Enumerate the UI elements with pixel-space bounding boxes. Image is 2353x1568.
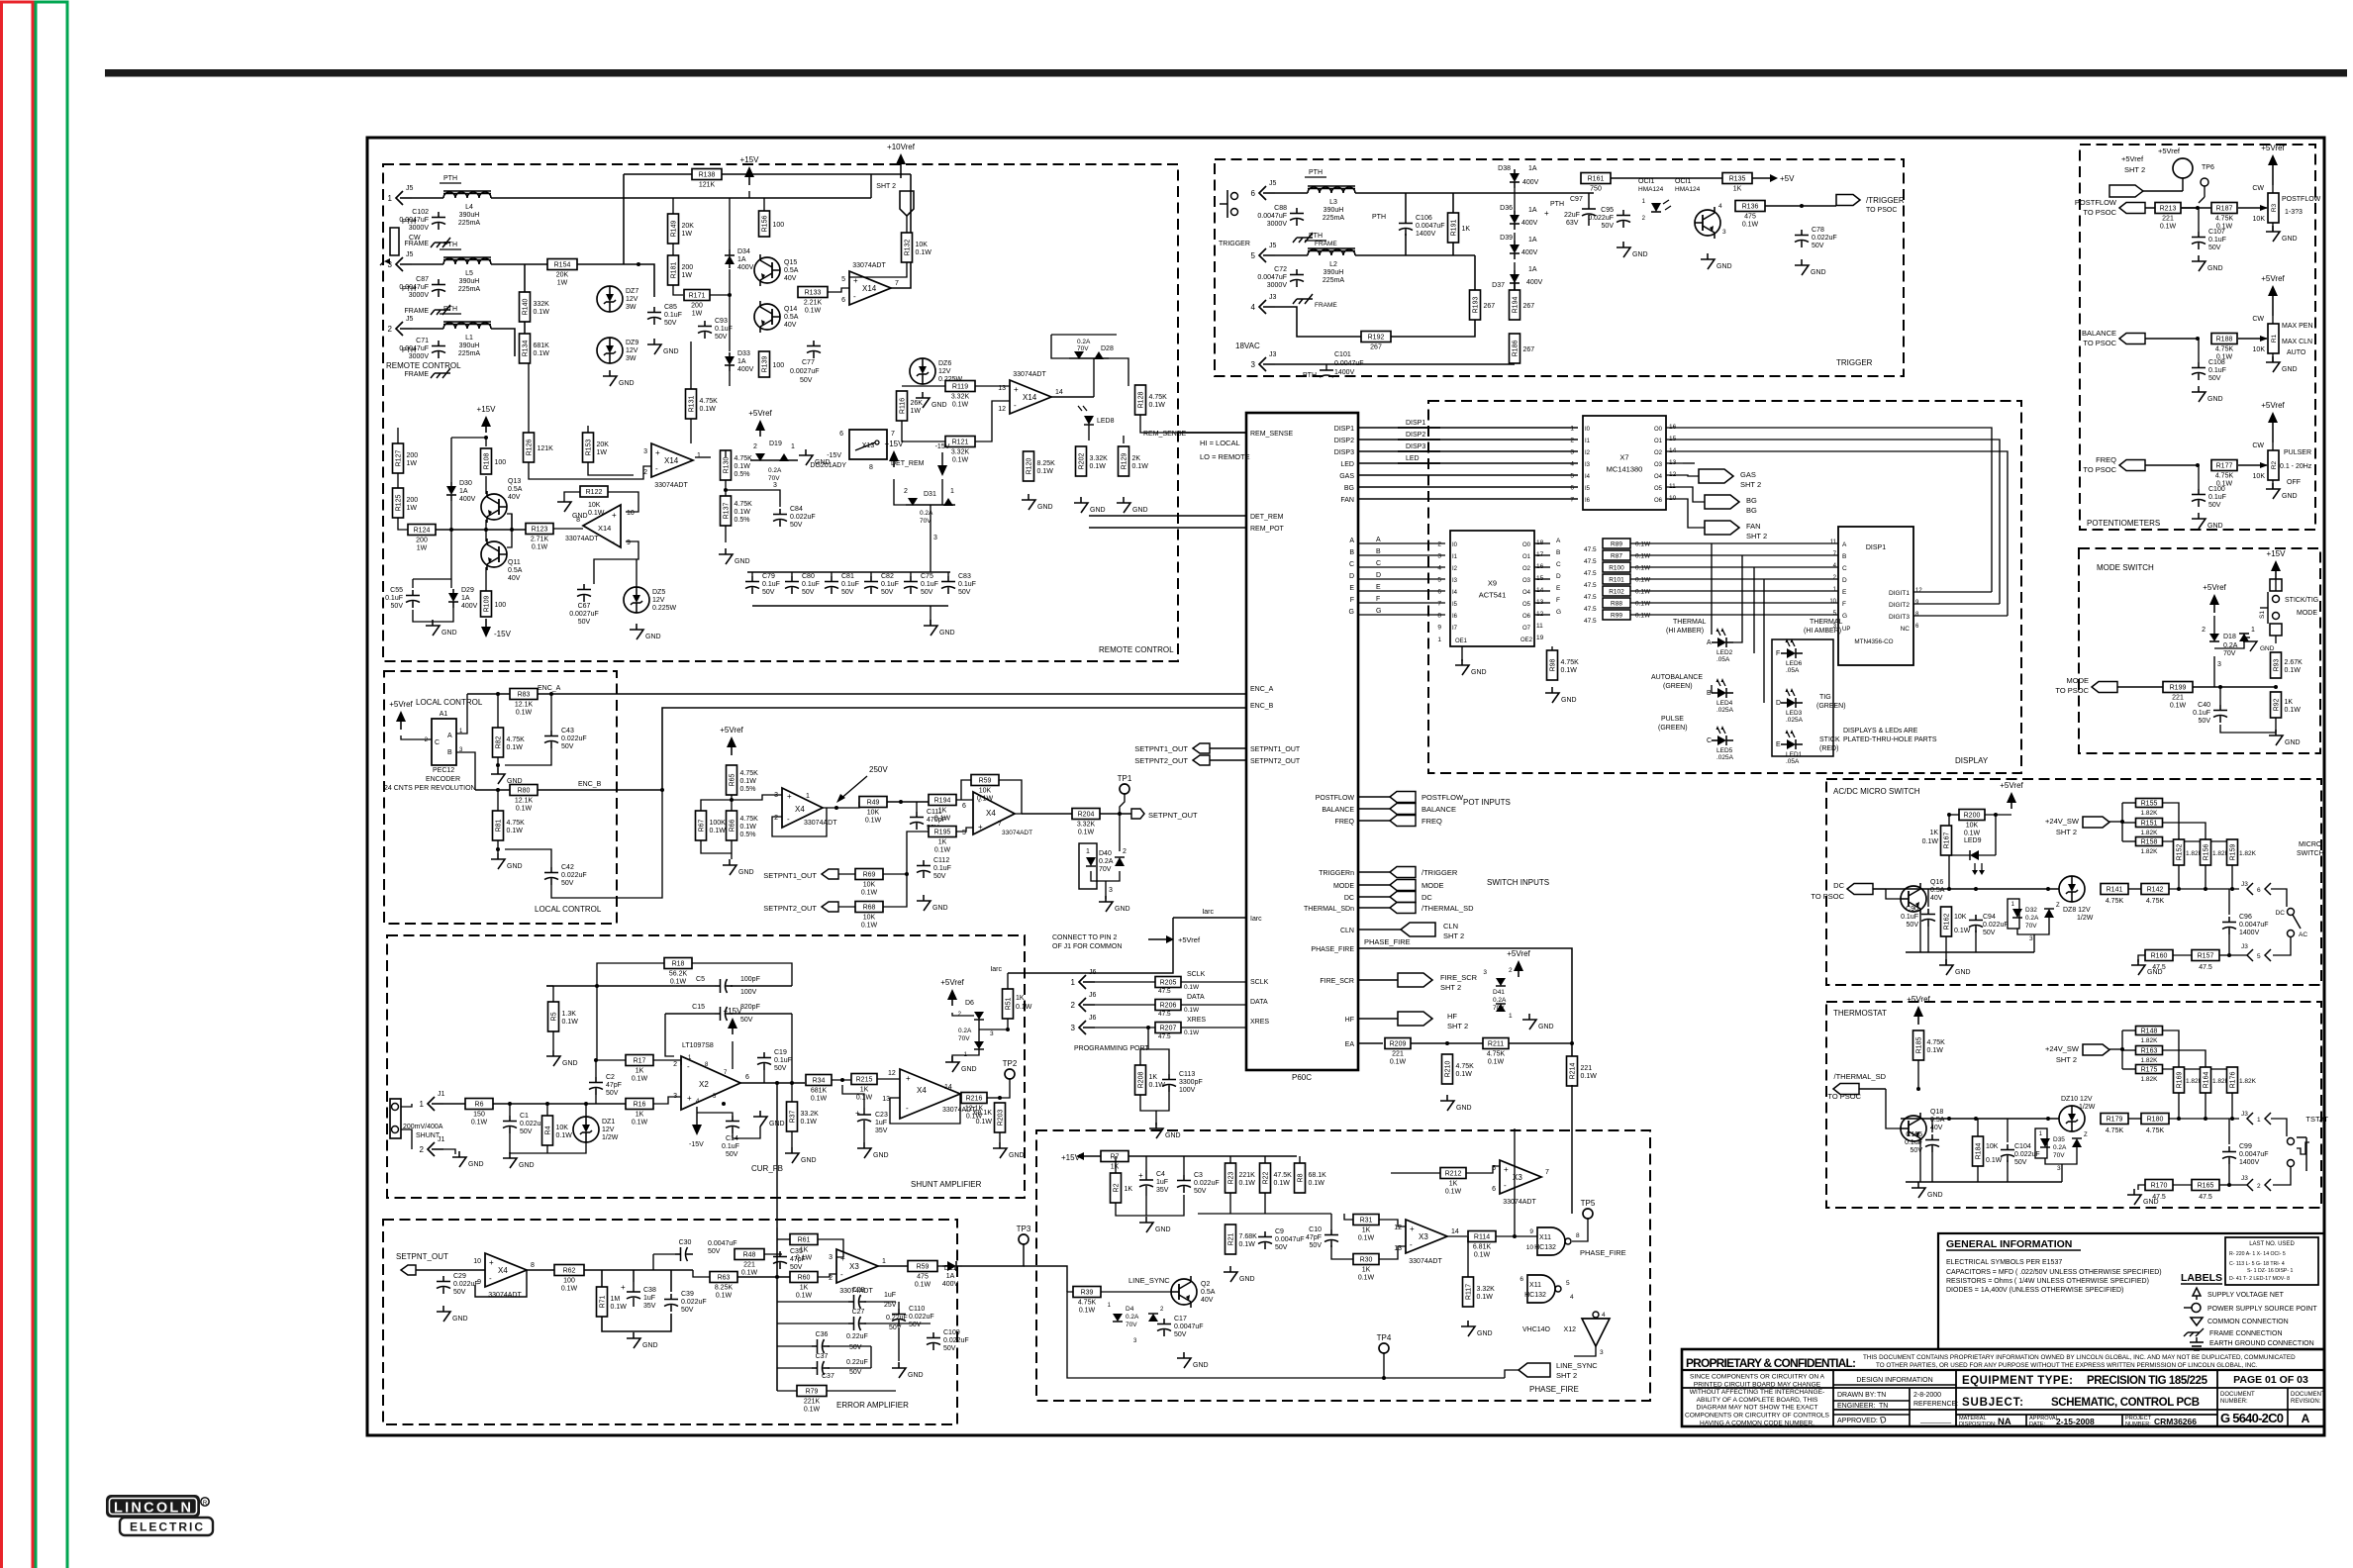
svg-text:0.1W: 0.1W (716, 1293, 733, 1300)
svg-text:R83: R83 (518, 692, 531, 699)
capacitor C23 (855, 1108, 888, 1134)
resistor R17 (626, 1055, 653, 1083)
svg-text:1K: 1K (1929, 830, 1938, 836)
wire Q16 collector rail (1886, 888, 2059, 890)
svg-text:DC: DC (2276, 910, 2286, 917)
svg-text:R141: R141 (2107, 887, 2123, 894)
svg-text:+: + (978, 823, 983, 832)
net tag SETPNT2_OUT (1134, 755, 1210, 765)
svg-text:GND: GND (619, 380, 635, 387)
svg-text:R8: R8 (1298, 1173, 1305, 1182)
svg-text:J6: J6 (1089, 992, 1097, 999)
ground (2131, 959, 2163, 976)
LED LED3 (1776, 688, 1804, 724)
net tag POSTFLOW (2119, 203, 2145, 214)
svg-text:3: 3 (2217, 661, 2221, 668)
resistor R175 (2136, 1065, 2163, 1074)
svg-text:F: F (1776, 650, 1780, 657)
section box PHASE_FIRE (1036, 1130, 1650, 1401)
svg-text:40V: 40V (508, 575, 521, 582)
svg-text:1: 1 (2251, 627, 2255, 634)
svg-text:1/2W: 1/2W (2079, 1104, 2096, 1111)
svg-text:9: 9 (1529, 1228, 1533, 1235)
svg-text:L4: L4 (465, 204, 473, 211)
svg-text:FIRE_SCR: FIRE_SCR (1440, 973, 1478, 982)
svg-text:O6: O6 (1654, 498, 1663, 504)
wire (2138, 1185, 2145, 1190)
wire (1091, 871, 1120, 881)
net tag +24V_SW (2045, 1044, 2109, 1064)
wire (725, 480, 727, 496)
wire (732, 1041, 734, 1069)
svg-text:0.1W: 0.1W (1954, 928, 1971, 934)
wire (1210, 759, 1246, 761)
svg-text:267: 267 (1370, 344, 1382, 351)
resistor R51 (1003, 989, 1014, 1019)
svg-text:G: G (1376, 608, 1381, 615)
svg-text:1K: 1K (1125, 1186, 1133, 1193)
resistor R2x (1111, 1173, 1133, 1203)
svg-text:BG: BG (1746, 496, 1757, 505)
svg-text:R3: R3 (2271, 203, 2278, 212)
svg-text:POT INPUTS: POT INPUTS (1463, 798, 1511, 807)
svg-text:CRM36266: CRM36266 (2154, 1417, 2197, 1426)
svg-text:X14: X14 (598, 524, 611, 533)
wire bottom run (1067, 1292, 1505, 1378)
svg-text:A: A (1349, 538, 1354, 544)
svg-text:0.1W: 0.1W (1274, 1180, 1291, 1187)
wire DISP bus 7 (1358, 498, 1578, 500)
power +5Vref (1507, 949, 1530, 977)
svg-text:SHT 2: SHT 2 (876, 183, 896, 190)
section box DISPLAY (1428, 401, 2021, 773)
capacitor C29 (437, 1273, 479, 1296)
svg-text:70V: 70V (1126, 1322, 1137, 1328)
svg-text:TP6: TP6 (2202, 164, 2214, 171)
wire (777, 1367, 812, 1369)
svg-text:+5Vref: +5Vref (389, 700, 413, 709)
svg-text:C43: C43 (561, 728, 574, 735)
svg-text:THIS DOCUMENT CONTAINS PROPRIE: THIS DOCUMENT CONTAINS PROPRIETARY INFOR… (1863, 1354, 2296, 1361)
svg-text:+: + (612, 511, 617, 520)
capacitor C17 (1157, 1316, 1204, 1338)
resistor R21 (1226, 1225, 1258, 1254)
svg-text:R165: R165 (2198, 1183, 2214, 1190)
svg-text:F: F (1350, 597, 1354, 604)
svg-text:2: 2 (643, 469, 647, 476)
svg-text:R18: R18 (672, 961, 685, 968)
svg-text:GND: GND (1037, 504, 1053, 511)
resistor R6 (465, 1099, 493, 1127)
svg-text:2: 2 (1570, 438, 1574, 444)
svg-text:10K: 10K (1986, 1143, 1999, 1150)
svg-text:GND: GND (2207, 523, 2223, 530)
svg-text:4.75K: 4.75K (1078, 1300, 1097, 1307)
wire (450, 501, 452, 530)
test point TP1 (1118, 774, 1132, 794)
svg-text:0.1uF: 0.1uF (958, 581, 976, 588)
svg-text:0.5%: 0.5% (740, 832, 756, 838)
svg-text:R123: R123 (532, 527, 548, 534)
svg-text:R169: R169 (2177, 1072, 2184, 1089)
svg-text:VHC14O: VHC14O (1522, 1326, 1551, 1333)
svg-text:2: 2 (388, 325, 393, 334)
svg-text:GND: GND (2282, 493, 2298, 500)
svg-text:GND: GND (2282, 236, 2298, 243)
ground (426, 620, 457, 637)
wire (1733, 555, 1742, 642)
wire (1379, 1220, 1406, 1226)
trigger switch symbol (1219, 190, 1250, 247)
svg-text:-: - (1410, 1240, 1413, 1249)
svg-text:0.1W: 0.1W (861, 890, 878, 897)
svg-text:0.5A: 0.5A (1201, 1289, 1216, 1296)
wire (2007, 1160, 2009, 1182)
resistor R206 (1155, 1000, 1181, 1011)
svg-text:.05A: .05A (1786, 758, 1800, 765)
resistor R132 (902, 233, 932, 262)
svg-text:0.1W: 0.1W (471, 1120, 488, 1127)
svg-text:GND: GND (2207, 396, 2223, 403)
wire segment O2 (1683, 451, 2008, 616)
svg-text:GND: GND (1090, 507, 1106, 514)
wire (823, 802, 859, 808)
diode D34 (725, 248, 754, 271)
svg-text:1K: 1K (1362, 1227, 1371, 1234)
svg-text:0.1W: 0.1W (1964, 831, 1981, 837)
svg-text:R204: R204 (1078, 812, 1095, 819)
net tag SHT 2 (down pentagon) (876, 183, 914, 216)
resistor R135 (1722, 173, 1752, 193)
wire (2121, 803, 2123, 841)
capacitor bank wire (747, 571, 950, 573)
wire (1927, 889, 1929, 907)
svg-text:SETPNT2_OUT: SETPNT2_OUT (1134, 756, 1188, 765)
frame connection (405, 238, 451, 247)
connector J3 pin 6 (2241, 881, 2271, 895)
wire (2017, 918, 2049, 934)
svg-text:10K: 10K (979, 788, 992, 795)
svg-text:DISP3: DISP3 (1334, 449, 1354, 456)
wire (2275, 579, 2277, 591)
svg-text:PTH: PTH (402, 219, 416, 226)
wire (491, 197, 871, 199)
svg-text:6: 6 (1520, 1276, 1523, 1283)
svg-text:O5: O5 (1654, 486, 1663, 492)
svg-text:MAX CLN: MAX CLN (2282, 339, 2312, 345)
capacitor C35 (773, 1248, 806, 1271)
resistor R65 (727, 765, 759, 795)
svg-text:0.1W: 0.1W (561, 1286, 578, 1293)
svg-text:C: C (1349, 561, 1354, 568)
wire (1411, 1042, 1483, 1044)
svg-text:Q18: Q18 (1930, 1109, 1943, 1116)
svg-text:33074ADT: 33074ADT (488, 1292, 522, 1299)
wire (1572, 1219, 1588, 1241)
svg-text:70V: 70V (1077, 345, 1089, 352)
wire D (1358, 578, 1445, 580)
svg-text:400V: 400V (459, 496, 476, 503)
svg-text:4.75K: 4.75K (1149, 394, 1168, 401)
wire (902, 421, 945, 441)
svg-text:10K: 10K (1966, 823, 1979, 830)
wire (2122, 1068, 2135, 1070)
svg-text:EQUIPMENT TYPE:: EQUIPMENT TYPE: (1962, 1375, 2073, 1387)
capacitor C55 (385, 587, 420, 610)
svg-text:CLN: CLN (1340, 928, 1354, 934)
connector J3 pin 2 (2241, 1175, 2271, 1191)
svg-text:R134: R134 (523, 341, 530, 357)
op-amp X3 (1394, 1220, 1459, 1265)
resistor R213 (2155, 203, 2181, 231)
svg-text:C5: C5 (696, 976, 705, 983)
svg-text:-: - (906, 1104, 909, 1113)
svg-text:12.1K: 12.1K (515, 702, 534, 709)
resistor R207 (1155, 1023, 1181, 1033)
svg-text:C113: C113 (1179, 1071, 1195, 1078)
wire (594, 541, 638, 584)
svg-text:GND: GND (735, 558, 750, 565)
svg-text:221: 221 (1581, 1065, 1593, 1072)
svg-text:R61: R61 (798, 1237, 811, 1244)
svg-text:DIGIT1: DIGIT1 (1889, 590, 1910, 597)
svg-text:DATA: DATA (1250, 999, 1268, 1006)
capacitor C42 (544, 864, 587, 887)
svg-text:DZ5: DZ5 (652, 589, 665, 596)
wire (693, 1270, 710, 1277)
svg-text:FRAME: FRAME (1315, 302, 1337, 309)
svg-text:OE1: OE1 (1455, 638, 1468, 644)
svg-text:2K: 2K (1132, 455, 1141, 462)
wire (401, 1129, 412, 1149)
resistor R67 (696, 811, 727, 840)
wire (890, 1094, 960, 1124)
svg-text:Q15: Q15 (784, 259, 797, 266)
svg-text:4.75K: 4.75K (700, 398, 719, 405)
svg-text:0.022uF: 0.022uF (909, 1314, 934, 1321)
wire (1534, 554, 1550, 556)
wire (2173, 954, 2192, 956)
svg-text:0.1W: 0.1W (1132, 463, 1149, 470)
svg-text:LOCAL CONTROL: LOCAL CONTROL (416, 698, 483, 707)
wire (564, 492, 580, 502)
wire (1358, 1042, 1383, 1044)
svg-text:50V: 50V (943, 1345, 956, 1352)
resistor R191 (1448, 213, 1471, 243)
svg-text:GND: GND (939, 630, 955, 637)
svg-text:G: G (1556, 609, 1561, 616)
svg-text:6: 6 (962, 803, 966, 810)
svg-text:DIODES = 1A,400V (UNLESS: DIODES = 1A,400V (UNLESS OTHERWISE SPECI… (1946, 1287, 2123, 1294)
diode D28 (1069, 339, 1114, 359)
IC DISP1 display (1838, 527, 1913, 665)
wire (1753, 567, 1755, 653)
power +5Vref (2261, 401, 2285, 442)
power +5Vref (940, 978, 964, 1006)
resistor R120 (1024, 451, 1056, 481)
wire seg R99 (1630, 614, 1838, 616)
svg-text:SHT 2: SHT 2 (1556, 1371, 1577, 1380)
resistor R176 (2227, 1067, 2238, 1093)
wire (791, 572, 793, 576)
svg-text:221: 221 (2172, 695, 2184, 702)
svg-text:R180: R180 (2147, 1117, 2164, 1124)
ground (2127, 1189, 2159, 1206)
wire (987, 1097, 1000, 1099)
wire (1358, 1018, 1398, 1020)
svg-text:50V: 50V (909, 1322, 922, 1328)
svg-text:GND: GND (1239, 1276, 1255, 1283)
svg-text:0.1W: 0.1W (588, 510, 605, 517)
svg-text:D: D (1556, 573, 1561, 580)
wire (838, 873, 855, 875)
capacitor C96 (2222, 914, 2269, 936)
svg-text:1A: 1A (737, 256, 746, 263)
svg-text:C105: C105 (1906, 1131, 1922, 1138)
svg-text:20K: 20K (556, 272, 569, 279)
svg-text:820pF: 820pF (740, 1004, 760, 1011)
svg-text:TIG: TIG (1819, 694, 1831, 701)
svg-text:1uF: 1uF (884, 1292, 896, 1299)
wire DISP bus 3 (1358, 450, 1578, 452)
svg-text:47.5: 47.5 (1158, 1033, 1171, 1040)
svg-text:D- 41 T- 2 LED-17 MOV-: D- 41 T- 2 LED-17 MOV- 8 (2229, 1276, 2290, 1282)
svg-text:+: + (621, 1283, 626, 1292)
svg-text:2: 2 (2202, 627, 2206, 634)
svg-text:R89: R89 (1611, 541, 1622, 548)
svg-text:681K: 681K (811, 1088, 828, 1095)
svg-text:R114: R114 (1474, 1234, 1490, 1241)
op-amp X4 stage 1 (774, 788, 837, 828)
wire (2033, 934, 2035, 952)
svg-text:0.1W: 0.1W (632, 1076, 648, 1083)
wire (697, 1113, 733, 1116)
diode D40 pair (1079, 843, 1127, 894)
svg-text:1K: 1K (800, 1247, 809, 1254)
svg-text:SHUNT AMPLIFIER: SHUNT AMPLIFIER (911, 1180, 982, 1189)
wire (397, 473, 399, 488)
svg-text:0.1W: 0.1W (952, 402, 969, 409)
svg-text:0.5A: 0.5A (508, 567, 523, 574)
power +15V (724, 1007, 743, 1034)
frame connection (1293, 233, 1313, 243)
svg-text:R122: R122 (586, 489, 603, 496)
LED LED4 (1707, 678, 1734, 714)
switch DC/AC (2276, 909, 2308, 939)
wire Q18 collector rail (1901, 1118, 2059, 1120)
svg-text:CLN: CLN (1443, 922, 1458, 931)
svg-text:C80: C80 (802, 573, 815, 580)
svg-text:FAN: FAN (1340, 497, 1354, 504)
svg-text:0.022uF: 0.022uF (2014, 1151, 2040, 1158)
svg-text:PHASE_FIRE: PHASE_FIRE (1529, 1385, 1579, 1394)
svg-text:TO PSOC: TO PSOC (2083, 339, 2116, 347)
svg-text:X14: X14 (862, 284, 877, 293)
svg-text:I6: I6 (1452, 614, 1458, 620)
resistor R83 (510, 689, 538, 717)
svg-text:0.5A: 0.5A (784, 267, 799, 274)
svg-text:4.75K: 4.75K (2146, 898, 2165, 905)
svg-text:O5: O5 (1522, 602, 1531, 608)
wire (1148, 1049, 1169, 1074)
resistor R148 (2136, 1027, 2163, 1035)
wire segment O1 (1683, 440, 2000, 604)
svg-text:SHT 2: SHT 2 (1447, 1022, 1468, 1030)
svg-text:-15V: -15V (935, 443, 950, 450)
power +10Vref (887, 143, 916, 178)
wire (1886, 889, 1901, 899)
svg-text:1.82K: 1.82K (2141, 810, 2159, 817)
250V note (836, 765, 888, 803)
wire ENC_B (538, 789, 662, 791)
svg-text:HF: HF (1345, 1017, 1354, 1024)
diode D11 (942, 1261, 962, 1288)
svg-text:40V: 40V (508, 494, 521, 501)
svg-text:100V: 100V (740, 989, 757, 996)
svg-text:1: 1 (950, 488, 954, 495)
svg-text:400V: 400V (737, 264, 754, 271)
svg-text:J3: J3 (1269, 294, 1277, 301)
svg-text:C108: C108 (2208, 359, 2225, 366)
svg-text:1K: 1K (2285, 699, 2294, 706)
resistor R66 (727, 811, 759, 840)
wire (751, 572, 753, 576)
green margin bar (36, 2, 67, 1568)
potentiometer R1 (2252, 316, 2279, 353)
wire (2238, 338, 2267, 340)
svg-text:3: 3 (1109, 887, 1113, 894)
svg-text:LAST NO. USED: LAST NO. USED (2249, 1241, 2295, 1247)
svg-text:R151: R151 (2141, 821, 2158, 828)
wire (1275, 363, 1515, 365)
svg-text:50V: 50V (561, 880, 574, 887)
svg-text:CONNECT TO PIN 2: CONNECT TO PIN 2 (1052, 934, 1117, 941)
svg-text:LED3: LED3 (1786, 710, 1803, 717)
svg-text:R149: R149 (671, 221, 678, 238)
svg-text:MODE: MODE (2297, 610, 2317, 617)
wire (763, 198, 765, 211)
wire (1183, 1156, 1185, 1175)
svg-text:0.2A: 0.2A (920, 510, 933, 517)
svg-text:0.1W: 0.1W (1488, 1059, 1505, 1066)
svg-text:+10Vref: +10Vref (887, 143, 916, 151)
svg-text:C: C (435, 739, 440, 746)
capacitor C101 (1303, 351, 1364, 379)
wire (2231, 865, 2233, 889)
svg-text:E: E (1349, 585, 1354, 592)
svg-text:X14: X14 (664, 456, 679, 465)
wire (777, 1238, 790, 1240)
power +15V (477, 405, 497, 433)
wire (2122, 822, 2135, 824)
svg-text:R176: R176 (2230, 1072, 2237, 1089)
wire (1496, 1235, 1537, 1237)
wire (1355, 192, 1594, 194)
svg-text:47.5: 47.5 (1584, 618, 1597, 625)
svg-text:SHT 2: SHT 2 (1746, 532, 1767, 540)
svg-text:GND: GND (1165, 1132, 1181, 1139)
resistor R210 (1442, 1054, 1475, 1084)
wire REM_SENSE (1178, 432, 1246, 434)
svg-text:+5Vref: +5Vref (2121, 154, 2144, 163)
wire (1466, 1166, 1500, 1173)
resistor R158 (2136, 837, 2163, 846)
svg-text:LED5: LED5 (1716, 747, 1733, 754)
wire (956, 828, 973, 832)
resistor R102 (1603, 586, 1651, 596)
svg-text:0.1uF: 0.1uF (841, 581, 859, 588)
svg-text:CAPACITORS = MFD ( .022/50V: CAPACITORS = MFD ( .022/50V UNLESS OTHER… (1946, 1269, 2162, 1276)
